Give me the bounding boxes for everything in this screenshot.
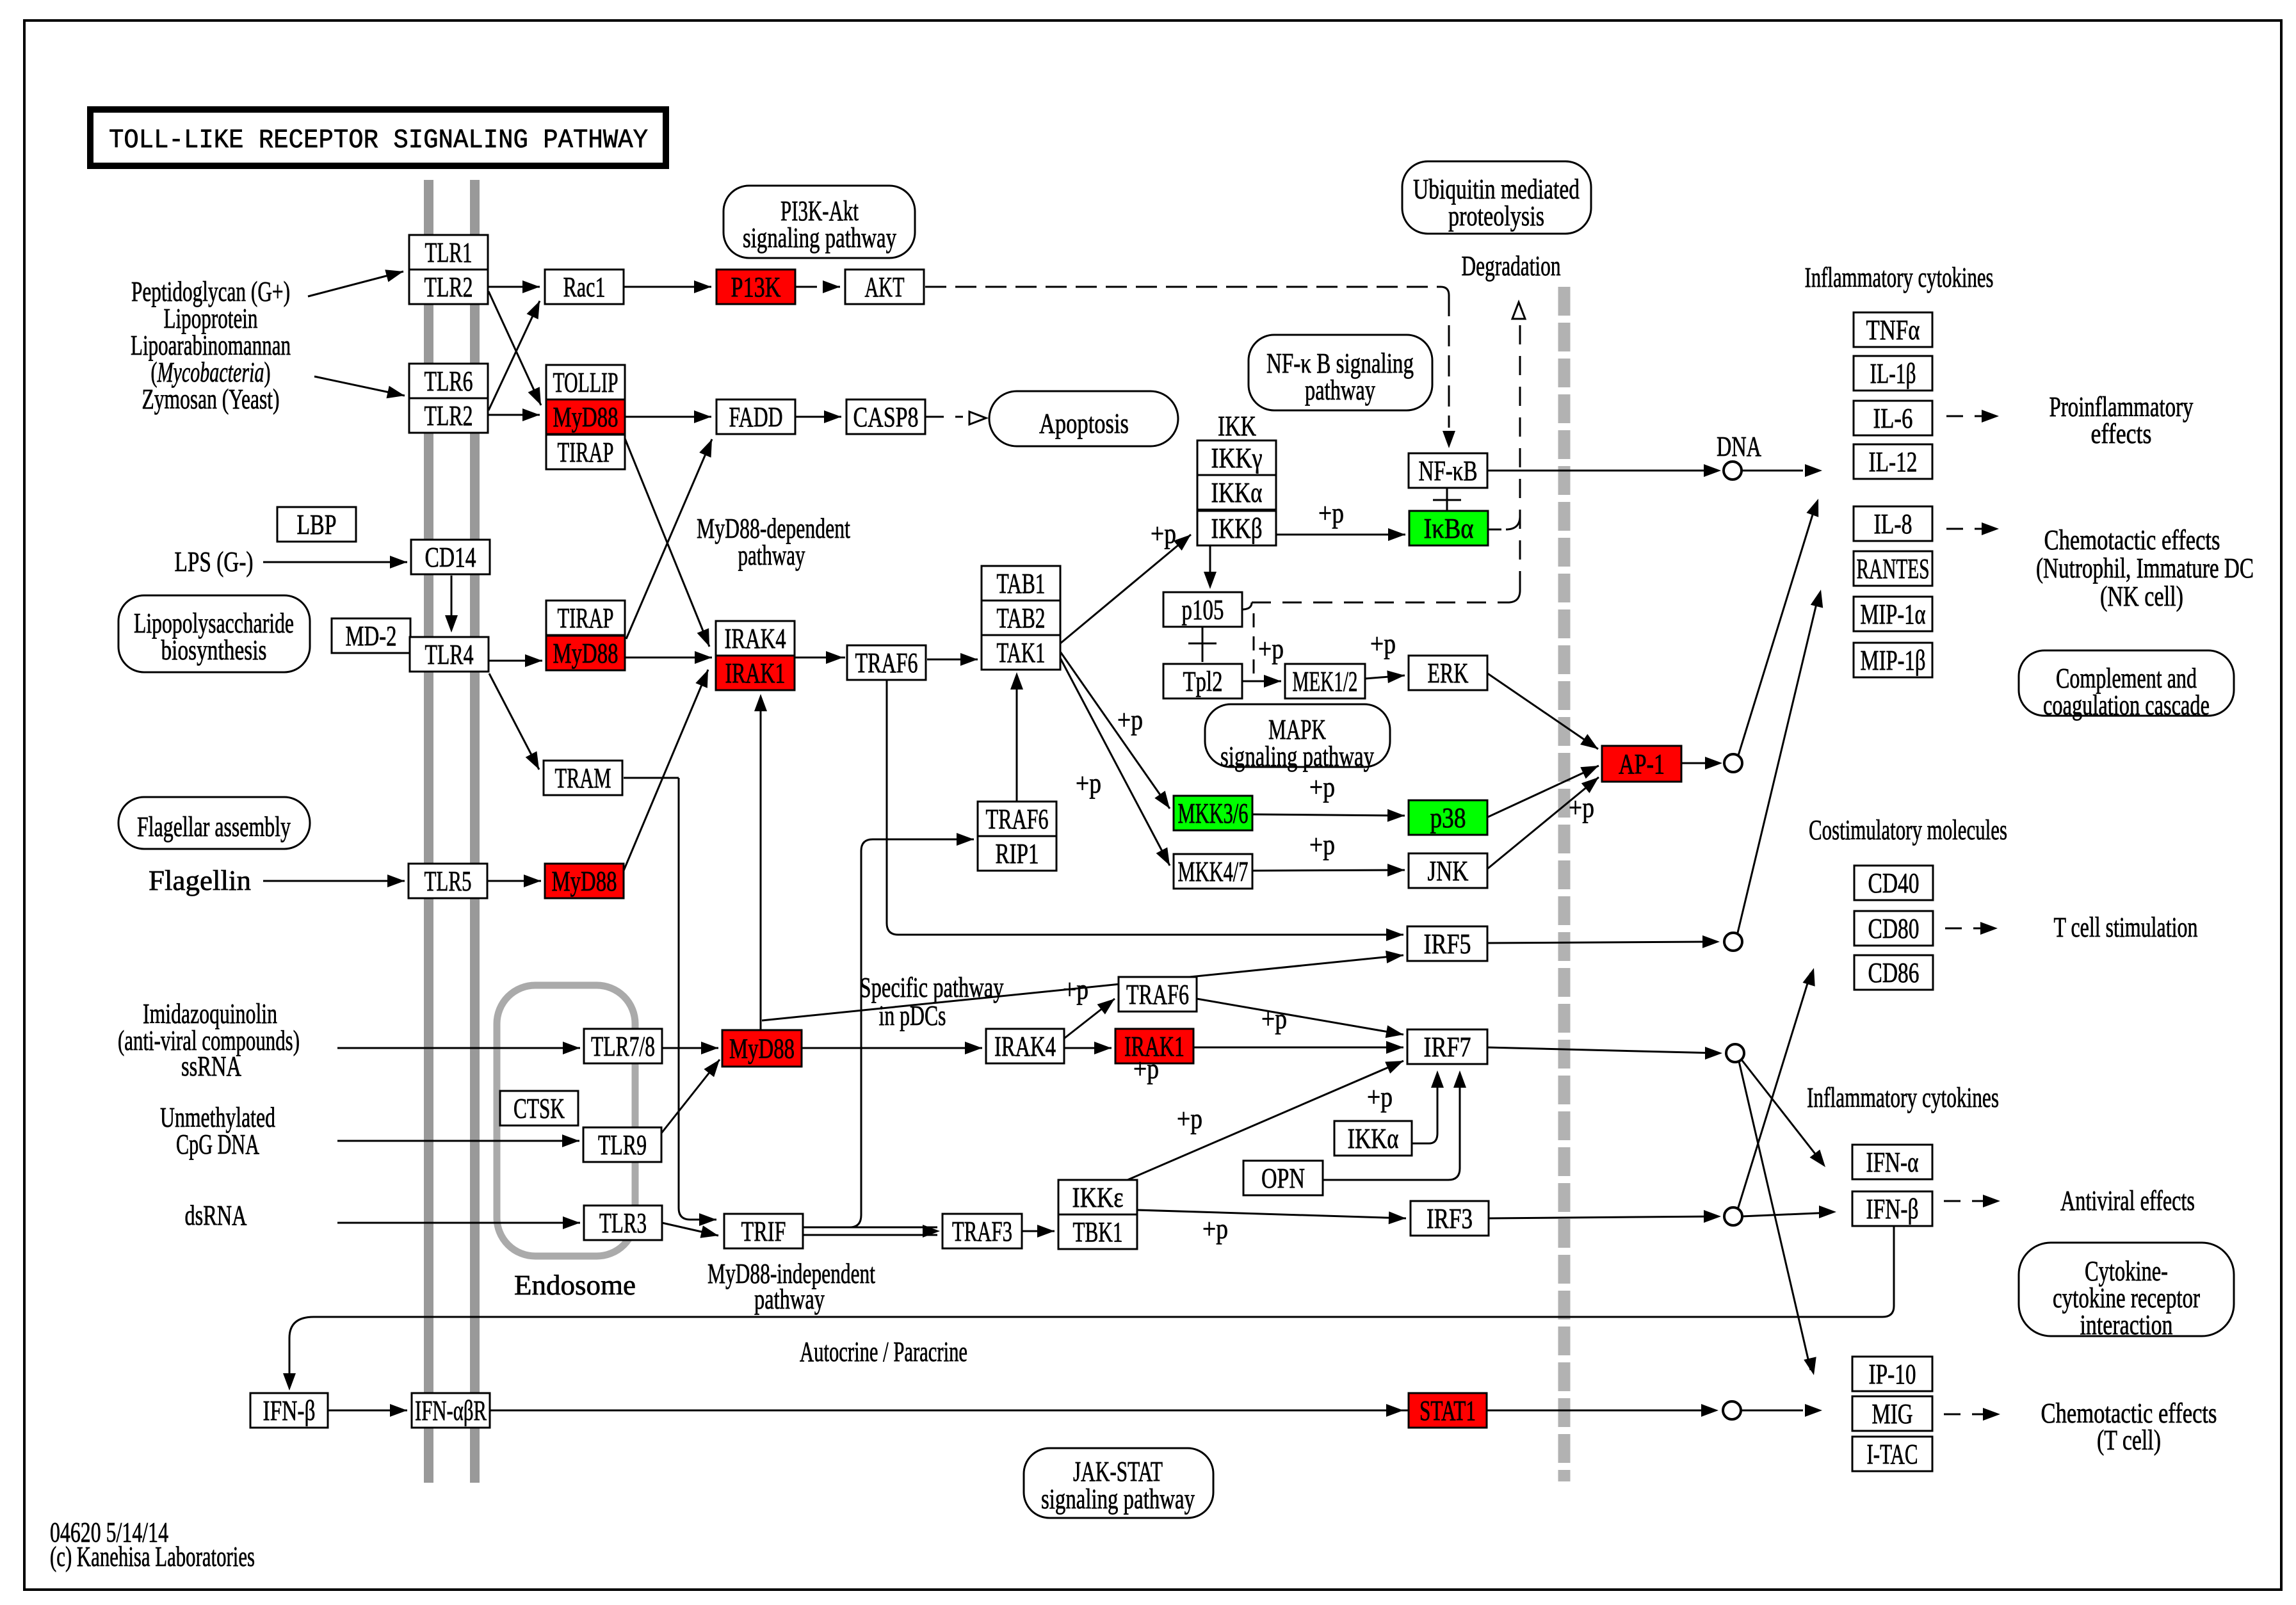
svg-text:CD80: CD80 xyxy=(1868,913,1920,944)
svg-text:IL-8: IL-8 xyxy=(1874,508,1912,540)
svg-text:+p: +p xyxy=(1367,1081,1393,1113)
svg-text:+p: +p xyxy=(1063,974,1088,1005)
svg-text:MyD88: MyD88 xyxy=(553,638,618,669)
svg-text:Autocrine / Paracrine: Autocrine / Paracrine xyxy=(800,1336,967,1367)
svg-text:IP-10: IP-10 xyxy=(1869,1359,1916,1390)
svg-text:+p: +p xyxy=(1117,704,1143,736)
svg-text:TAB2: TAB2 xyxy=(997,602,1046,634)
svg-text:Chemotactic effects: Chemotactic effects xyxy=(2044,524,2220,556)
svg-text:+p: +p xyxy=(1258,633,1284,665)
svg-text:NF-κB: NF-κB xyxy=(1419,455,1478,487)
svg-text:TLR1: TLR1 xyxy=(425,237,473,268)
svg-text:signaling pathway: signaling pathway xyxy=(1041,1483,1195,1515)
svg-text:+p: +p xyxy=(1309,771,1335,803)
svg-text:I-TAC: I-TAC xyxy=(1867,1439,1918,1470)
svg-text:DNA: DNA xyxy=(1717,431,1761,462)
svg-text:coagulation cascade: coagulation cascade xyxy=(2043,690,2210,721)
svg-text:STAT1: STAT1 xyxy=(1419,1395,1476,1426)
svg-text:IFN-β: IFN-β xyxy=(263,1395,316,1426)
svg-text:TRAF3: TRAF3 xyxy=(952,1216,1012,1247)
svg-text:TIRAP: TIRAP xyxy=(558,437,614,468)
svg-text:TLR2: TLR2 xyxy=(424,400,473,431)
svg-text:MIP-1α: MIP-1α xyxy=(1861,599,1926,630)
svg-text:CASP8: CASP8 xyxy=(853,401,919,433)
svg-text:TLR5: TLR5 xyxy=(424,866,472,897)
svg-text:IRAK4: IRAK4 xyxy=(725,623,786,654)
svg-text:pathway: pathway xyxy=(738,540,805,571)
svg-text:TLR3: TLR3 xyxy=(599,1207,647,1239)
svg-text:(c) Kanehisa Laboratories: (c) Kanehisa Laboratories xyxy=(50,1541,255,1572)
svg-text:IL-1β: IL-1β xyxy=(1870,358,1916,389)
svg-text:CD40: CD40 xyxy=(1868,867,1920,899)
svg-text:TLR4: TLR4 xyxy=(425,639,474,670)
svg-text:JAK-STAT: JAK-STAT xyxy=(1073,1456,1163,1487)
svg-text:MIG: MIG xyxy=(1872,1398,1913,1430)
svg-text:p38: p38 xyxy=(1430,802,1466,834)
svg-text:Inflammatory cytokines: Inflammatory cytokines xyxy=(1807,1082,1999,1113)
svg-text:+p: +p xyxy=(1261,1003,1287,1035)
svg-text:TBK1: TBK1 xyxy=(1073,1216,1123,1248)
svg-text:IKKα: IKKα xyxy=(1348,1123,1399,1154)
svg-text:IFN-β: IFN-β xyxy=(1866,1193,1919,1225)
svg-text:Costimulatory molecules: Costimulatory molecules xyxy=(1809,814,2007,846)
svg-text:IRF3: IRF3 xyxy=(1427,1203,1473,1234)
svg-text:Flagellin: Flagellin xyxy=(149,865,251,896)
svg-text:IRF5: IRF5 xyxy=(1424,928,1471,960)
svg-text:Inflammatory cytokines: Inflammatory cytokines xyxy=(1805,262,1994,293)
svg-text:FADD: FADD xyxy=(729,401,783,433)
svg-text:IKKβ: IKKβ xyxy=(1211,513,1263,544)
svg-text:TRAM: TRAM xyxy=(555,762,611,794)
svg-text:signaling pathway: signaling pathway xyxy=(1220,741,1374,772)
svg-text:TRIF: TRIF xyxy=(741,1216,786,1247)
svg-text:dsRNA: dsRNA xyxy=(185,1200,247,1231)
svg-text:AP-1: AP-1 xyxy=(1619,748,1665,780)
svg-text:(Nutrophil, Immature DC: (Nutrophil, Immature DC xyxy=(2036,552,2254,584)
svg-text:MKK4/7: MKK4/7 xyxy=(1178,856,1249,887)
svg-text:TLR9: TLR9 xyxy=(598,1129,647,1161)
svg-text:Endosome: Endosome xyxy=(514,1270,636,1301)
svg-text:IRF7: IRF7 xyxy=(1424,1031,1471,1063)
svg-text:IKK: IKK xyxy=(1218,410,1256,442)
svg-text:MKK3/6: MKK3/6 xyxy=(1178,798,1249,829)
svg-text:+p: +p xyxy=(1569,792,1594,823)
svg-text:CTSK: CTSK xyxy=(513,1093,565,1124)
svg-text:Degradation: Degradation xyxy=(1462,250,1561,282)
svg-text:pathway: pathway xyxy=(1305,375,1375,406)
svg-text:TAK1: TAK1 xyxy=(997,637,1046,668)
svg-text:TRAF6: TRAF6 xyxy=(1126,979,1189,1010)
svg-text:MEK1/2: MEK1/2 xyxy=(1293,666,1358,697)
svg-text:+p: +p xyxy=(1318,497,1344,529)
svg-text:Zymosan (Yeast): Zymosan (Yeast) xyxy=(142,383,280,415)
svg-text:TOLL-LIKE RECEPTOR SIGNALING P: TOLL-LIKE RECEPTOR SIGNALING PATHWAY xyxy=(109,125,648,156)
svg-text:+p: +p xyxy=(1133,1053,1159,1085)
svg-text:MyD88: MyD88 xyxy=(552,866,617,897)
svg-text:TAB1: TAB1 xyxy=(997,568,1046,599)
svg-text:RIP1: RIP1 xyxy=(996,838,1039,869)
svg-text:IRAK4: IRAK4 xyxy=(994,1031,1056,1062)
svg-text:TIRAP: TIRAP xyxy=(558,602,614,634)
svg-text:TRAF6: TRAF6 xyxy=(855,647,918,679)
svg-text:IFN-α: IFN-α xyxy=(1866,1147,1919,1178)
svg-text:pathway: pathway xyxy=(754,1284,825,1315)
svg-text:OPN: OPN xyxy=(1261,1163,1305,1194)
svg-text:p105: p105 xyxy=(1182,594,1224,625)
svg-text:effects: effects xyxy=(2091,418,2152,449)
svg-text:Specific pathway: Specific pathway xyxy=(860,972,1004,1003)
svg-text:MyD88: MyD88 xyxy=(729,1033,795,1065)
svg-text:proteolysis: proteolysis xyxy=(1448,200,1544,232)
svg-text:IFN-αβR: IFN-αβR xyxy=(415,1395,487,1426)
svg-text:interaction: interaction xyxy=(2080,1309,2173,1341)
svg-text:+p: +p xyxy=(1076,768,1101,799)
svg-text:+p: +p xyxy=(1151,518,1176,549)
svg-text:IKKα: IKKα xyxy=(1211,477,1263,508)
svg-text:Rac1: Rac1 xyxy=(563,271,606,303)
svg-text:CD14: CD14 xyxy=(425,542,476,573)
svg-text:IKKε: IKKε xyxy=(1072,1182,1124,1213)
svg-text:in pDCs: in pDCs xyxy=(879,1000,946,1031)
svg-text:IRAK1: IRAK1 xyxy=(725,657,786,689)
svg-text:T cell stimulation: T cell stimulation xyxy=(2054,912,2198,943)
svg-text:ERK: ERK xyxy=(1428,657,1469,689)
svg-text:+p: +p xyxy=(1370,628,1396,659)
svg-text:TNFα: TNFα xyxy=(1866,314,1920,346)
svg-text:IL-6: IL-6 xyxy=(1873,403,1913,434)
svg-text:Tpl2: Tpl2 xyxy=(1183,666,1223,697)
svg-text:IKKγ: IKKγ xyxy=(1211,442,1263,474)
svg-text:(NK cell): (NK cell) xyxy=(2100,581,2183,612)
svg-text:IκBα: IκBα xyxy=(1424,513,1474,544)
svg-text:TOLLIP: TOLLIP xyxy=(553,367,618,398)
svg-text:TLR7/8: TLR7/8 xyxy=(591,1031,655,1062)
svg-text:P13K: P13K xyxy=(731,271,781,303)
svg-text:(T cell): (T cell) xyxy=(2097,1424,2161,1456)
svg-text:LBP: LBP xyxy=(297,509,337,540)
svg-text:+p: +p xyxy=(1177,1103,1202,1134)
svg-text:Apoptosis: Apoptosis xyxy=(1039,408,1129,439)
svg-text:CpG DNA: CpG DNA xyxy=(176,1129,259,1160)
svg-text:+p: +p xyxy=(1309,829,1335,860)
svg-text:MIP-1β: MIP-1β xyxy=(1861,645,1926,676)
svg-text:RANTES: RANTES xyxy=(1857,553,1930,585)
svg-text:AKT: AKT xyxy=(865,271,905,303)
svg-text:biosynthesis: biosynthesis xyxy=(161,634,267,666)
svg-text:MD-2: MD-2 xyxy=(346,620,397,652)
svg-text:LPS (G-): LPS (G-) xyxy=(175,546,254,577)
svg-text:MyD88: MyD88 xyxy=(553,401,618,433)
svg-text:Flagellar assembly: Flagellar assembly xyxy=(137,811,291,843)
svg-text:IL-12: IL-12 xyxy=(1869,446,1918,478)
svg-text:CD86: CD86 xyxy=(1868,957,1920,988)
svg-text:TRAF6: TRAF6 xyxy=(986,803,1049,835)
svg-text:TLR6: TLR6 xyxy=(424,366,473,397)
svg-text:ssRNA: ssRNA xyxy=(181,1051,241,1082)
svg-text:+p: +p xyxy=(1202,1213,1228,1245)
svg-text:TLR2: TLR2 xyxy=(424,271,473,303)
svg-text:signaling pathway: signaling pathway xyxy=(743,222,896,254)
svg-text:Antiviral effects: Antiviral effects xyxy=(2060,1185,2195,1216)
svg-text:JNK: JNK xyxy=(1428,855,1469,887)
